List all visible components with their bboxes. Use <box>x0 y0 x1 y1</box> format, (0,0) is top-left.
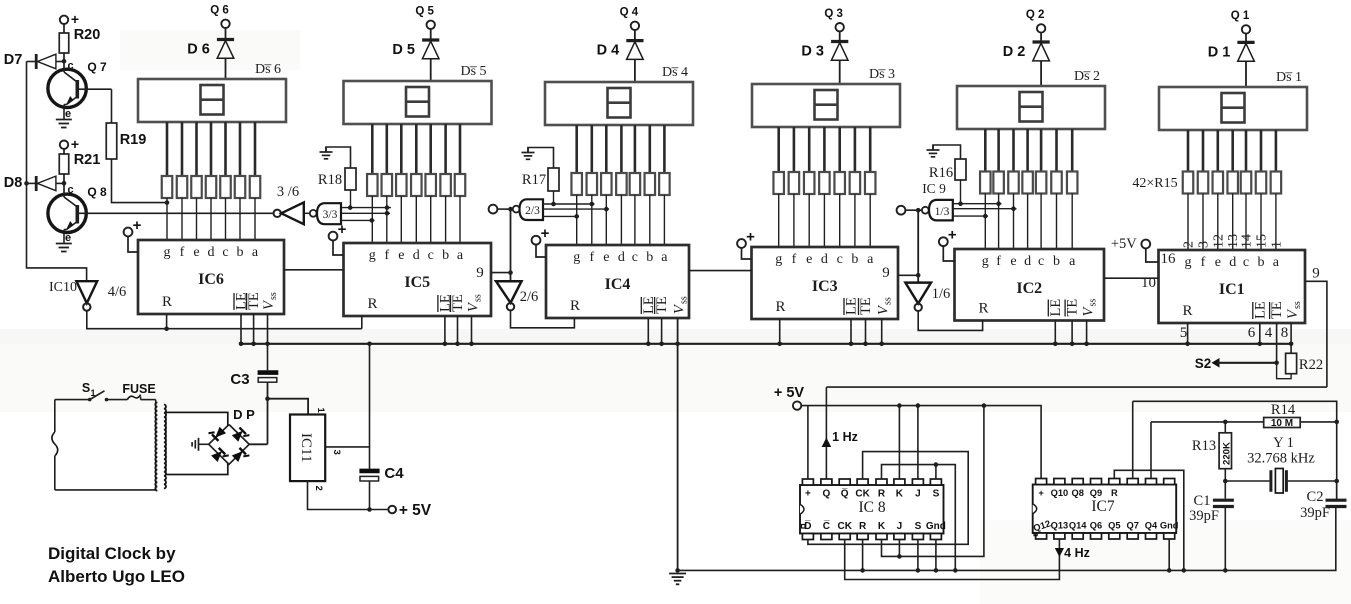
svg-text:+5V: +5V <box>1111 236 1137 252</box>
wire C3 node to IC11 pin1 <box>268 399 309 415</box>
svg-text:+: + <box>805 489 811 500</box>
svg-text:10 M: 10 M <box>1271 418 1293 429</box>
svg-text:Q 2: Q 2 <box>1026 9 1045 21</box>
svg-text:D 2: D 2 <box>1003 44 1026 60</box>
segment wires Ds4 to resistors <box>577 125 665 173</box>
svg-text:CK: CK <box>837 521 852 532</box>
svg-text:Ds̅ 3: Ds̅ 3 <box>869 67 895 82</box>
svg-text:g: g <box>369 248 376 263</box>
diode D7 <box>4 52 67 69</box>
svg-text:D 6: D 6 <box>187 42 210 58</box>
diode D8 <box>4 175 67 191</box>
wire 1/6 output to IC2 reset <box>918 311 982 330</box>
svg-text:b: b <box>1053 254 1060 269</box>
wire IC8 R bottom to ground bus <box>860 539 865 573</box>
svg-text:K: K <box>896 489 904 500</box>
wire R19 to segment g column <box>112 159 170 205</box>
IC3 <box>752 247 899 319</box>
wire 2/6 output to IC4 reset <box>511 310 575 327</box>
ground bus bottom <box>678 510 1336 571</box>
svg-text:+ 5V: + 5V <box>399 502 432 519</box>
svg-text:R: R <box>162 294 172 310</box>
wire IC8 R and S top to ground bus <box>882 462 958 572</box>
svg-text:d: d <box>1229 255 1236 270</box>
plus supply terminal for IC2 <box>939 227 957 261</box>
svg-text:42×R15: 42×R15 <box>1132 176 1177 191</box>
svg-text:3 /6: 3 /6 <box>277 184 299 200</box>
svg-text:R: R <box>570 298 580 314</box>
wire LE TE Vss bus <box>239 314 1294 346</box>
svg-text:Q: Q <box>823 489 831 500</box>
svg-text:IC6: IC6 <box>198 271 224 288</box>
terminal Q1 <box>1231 10 1250 33</box>
wire IC8 CK bottom 4Hz line to IC7 Q13 <box>845 539 1090 580</box>
svg-text:S: S <box>915 521 922 532</box>
svg-text:b: b <box>442 248 449 263</box>
svg-text:R16: R16 <box>929 165 953 181</box>
svg-text:IC10: IC10 <box>49 280 77 295</box>
svg-text:R14: R14 <box>1271 402 1296 418</box>
svg-text:5: 5 <box>1180 325 1188 341</box>
mains loop with AC source mark <box>52 400 156 490</box>
svg-text:Digital Clock by: Digital Clock by <box>48 544 176 563</box>
svg-text:C4: C4 <box>384 465 404 482</box>
segment resistor array under Ds1 (42xR15) <box>1183 172 1281 194</box>
svg-text:R: R <box>878 489 886 500</box>
segment wires Ds2 to resistors <box>985 129 1072 172</box>
segment resistor array under Ds4 <box>571 173 669 195</box>
svg-text:C3: C3 <box>230 371 249 388</box>
svg-text:Gnd: Gnd <box>926 521 946 532</box>
wire IC3 pin9 to 1/6 node <box>882 265 920 281</box>
resistor R22 <box>1277 344 1323 379</box>
plus supply terminal for IC6 <box>124 217 142 252</box>
svg-text:TE: TE <box>450 294 466 312</box>
svg-text:Ds̅ 4: Ds̅ 4 <box>662 65 688 80</box>
crystal Y1 <box>1225 435 1339 493</box>
IC6 <box>138 240 284 314</box>
wires resistors to IC4 inputs <box>577 195 665 245</box>
svg-text:TE: TE <box>858 297 874 315</box>
svg-text:S: S <box>933 489 940 500</box>
svg-text:R18: R18 <box>318 172 342 188</box>
gate 3/3 input taps <box>341 205 391 222</box>
svg-text:Q 5: Q 5 <box>415 6 434 18</box>
svg-text:g: g <box>573 250 580 265</box>
svg-text:1 Hz: 1 Hz <box>832 430 858 444</box>
svg-text:R: R <box>367 296 377 312</box>
svg-text:f: f <box>1201 255 1206 270</box>
svg-text:TE: TE <box>654 296 670 314</box>
svg-text:b: b <box>646 250 653 265</box>
svg-text:b: b <box>1258 255 1265 270</box>
diode D6 <box>187 28 234 79</box>
resistor R19 <box>106 89 146 159</box>
svg-text:Q4: Q4 <box>1145 521 1158 531</box>
ground symbol main <box>669 344 686 585</box>
svg-text:1/3: 1/3 <box>935 206 950 218</box>
transistor Q8 <box>48 183 107 244</box>
svg-text:Q7: Q7 <box>1126 521 1138 531</box>
svg-text:1/6: 1/6 <box>932 286 951 302</box>
svg-text:c: c <box>837 252 843 267</box>
svg-text:K: K <box>878 521 886 532</box>
svg-text:D 5: D 5 <box>392 42 415 58</box>
svg-text:d: d <box>413 248 420 263</box>
display Ds 2 <box>957 69 1105 129</box>
svg-text:6: 6 <box>1248 325 1256 341</box>
svg-text:d: d <box>208 245 215 260</box>
svg-text:Gnd: Gnd <box>1160 521 1179 531</box>
svg-text:Ds̅ 5: Ds̅ 5 <box>460 64 486 79</box>
diode D1 <box>1208 34 1255 87</box>
resistor R16 with ground <box>927 145 967 204</box>
wire D7 D8 anodes to IC10 input <box>27 62 87 282</box>
svg-text:c: c <box>222 245 228 260</box>
terminal + for R21 <box>60 136 79 152</box>
svg-text:D 3: D 3 <box>801 44 824 60</box>
svg-text:e: e <box>398 248 404 263</box>
wire IC8 plus pin to rail <box>807 406 809 479</box>
wire IC8 Q output 1 Hz <box>822 387 858 479</box>
svg-text:2/6: 2/6 <box>520 289 539 305</box>
svg-text:IC 8: IC 8 <box>858 499 885 516</box>
svg-text:ss: ss <box>268 292 279 300</box>
svg-text:15: 15 <box>1255 234 1270 248</box>
svg-text:g: g <box>1185 255 1192 270</box>
svg-text:a: a <box>457 248 464 263</box>
svg-text:R19: R19 <box>120 132 147 148</box>
svg-text:R: R <box>1111 488 1118 498</box>
gate 1/3 <box>922 200 953 221</box>
svg-text:S: S <box>82 381 90 395</box>
svg-text:a: a <box>1273 255 1280 270</box>
gate 2/3 <box>513 199 543 220</box>
svg-text:J: J <box>915 489 921 500</box>
wires resistors to IC6 inputs <box>167 198 255 240</box>
svg-text:d: d <box>821 252 828 267</box>
segment wires Ds1 to resistors <box>1188 130 1276 172</box>
svg-text:3/3: 3/3 <box>323 209 338 221</box>
terminal +5V for counters <box>774 385 805 410</box>
ground for Q7 emitter <box>56 105 72 128</box>
svg-text:c: c <box>1038 254 1044 269</box>
IC1 input pin numbers <box>1182 234 1285 248</box>
wire IC7 Gnd pin to ground bus <box>1167 539 1172 573</box>
terminal Q2 <box>1026 9 1045 32</box>
svg-text:IC1: IC1 <box>1219 281 1245 298</box>
svg-text:Q9: Q9 <box>1090 488 1102 498</box>
segment resistor array under Ds2 <box>980 172 1077 194</box>
svg-text:+: + <box>1038 488 1044 498</box>
resistor R17 with ground <box>522 148 560 205</box>
svg-text:e: e <box>603 250 609 265</box>
svg-text:32.768 kHz: 32.768 kHz <box>1247 451 1315 467</box>
IC8 <box>800 479 946 540</box>
svg-text:+: + <box>746 229 755 246</box>
wire IC8 CK top to D bottom <box>808 452 968 545</box>
svg-text:c: c <box>1243 255 1249 270</box>
svg-text:Q 7: Q 7 <box>87 60 107 74</box>
resistor R14 <box>1264 402 1301 429</box>
svg-text:S2: S2 <box>1195 356 1212 371</box>
svg-text:TE: TE <box>246 292 262 310</box>
IC2 <box>955 249 1105 321</box>
IC7 <box>1032 479 1179 540</box>
svg-text:d: d <box>618 250 625 265</box>
wire IC5 pin9 to 2/6 node <box>476 265 513 281</box>
terminal Q4 <box>620 7 639 30</box>
wire IC1 TE pin to S2 node <box>1276 323 1278 363</box>
IC6 LE TE Vss labels <box>234 292 280 310</box>
IC5 <box>344 243 492 316</box>
svg-text:4 Hz: 4 Hz <box>1064 546 1090 560</box>
svg-text:10: 10 <box>1141 275 1156 291</box>
svg-text:b: b <box>851 252 858 267</box>
resistor R18 with ground <box>318 147 356 208</box>
wire IC8 S Gnd bottom to ground bus <box>916 539 939 573</box>
wire IC10 output to reset bus of IC6 IC5 <box>87 311 362 331</box>
svg-text:e: e <box>65 232 71 244</box>
capacitor C2 <box>1300 481 1346 521</box>
svg-text:IC7: IC7 <box>1091 498 1115 515</box>
gate 2/3 input taps <box>543 202 609 219</box>
svg-text:+: + <box>133 217 142 234</box>
svg-text:f: f <box>589 250 594 265</box>
regulator IC11 <box>290 408 370 510</box>
segment wires Ds3 to resistors <box>779 127 871 172</box>
svg-text:C̅: C̅ <box>823 520 830 532</box>
display Ds 6 <box>138 62 286 122</box>
svg-text:a: a <box>867 252 874 267</box>
bridge rectifier DP <box>208 407 255 464</box>
svg-text:D7: D7 <box>4 52 23 68</box>
resistor R13 <box>1192 422 1233 483</box>
svg-text:16: 16 <box>1161 251 1177 267</box>
IC4 LE TE Vss labels <box>641 296 690 314</box>
svg-text:d: d <box>1024 254 1031 269</box>
svg-text:f: f <box>384 248 389 263</box>
svg-text:+: + <box>71 11 79 27</box>
wire IC8 K J bottom to rail <box>882 406 984 559</box>
svg-text:Q5: Q5 <box>1108 521 1120 531</box>
svg-text:9: 9 <box>476 265 484 281</box>
svg-text:C1: C1 <box>1194 493 1211 509</box>
svg-text:R13: R13 <box>1192 438 1216 454</box>
IC3 LE TE Vss labels <box>844 297 894 315</box>
svg-text:2: 2 <box>313 486 324 491</box>
segment wires Ds6 to resistors <box>167 122 255 176</box>
svg-text:LE: LE <box>1048 299 1064 317</box>
svg-text:IC2: IC2 <box>1016 280 1042 297</box>
svg-text:e: e <box>65 108 71 120</box>
wire +5V rail to IC7 plus <box>801 403 1041 479</box>
svg-text:R22: R22 <box>1299 357 1323 373</box>
svg-text:ss: ss <box>1088 299 1099 307</box>
svg-text:Q14: Q14 <box>1069 521 1087 531</box>
wire IC8 K J top to rail <box>899 406 918 479</box>
svg-text:4: 4 <box>1265 325 1273 341</box>
fuse <box>122 382 155 400</box>
IC4 <box>546 245 689 318</box>
svg-text:2: 2 <box>1182 241 1197 248</box>
wire IC2 pin9 to IC1 pin10 <box>1104 275 1159 291</box>
svg-text:+ 5V: + 5V <box>774 385 805 401</box>
svg-text:+: + <box>948 227 957 244</box>
terminal for gate 2/3 <box>489 205 513 214</box>
resistor R20 <box>59 24 100 61</box>
svg-text:a: a <box>661 250 668 265</box>
svg-text:Ds̅ 1: Ds̅ 1 <box>1276 70 1302 85</box>
svg-text:TE: TE <box>1065 299 1081 317</box>
svg-text:9: 9 <box>882 265 890 281</box>
svg-text:R: R <box>978 301 988 317</box>
svg-text:IC4: IC4 <box>605 276 631 293</box>
svg-text:Q6: Q6 <box>1090 521 1102 531</box>
resistor R21 <box>59 149 100 183</box>
svg-text:f: f <box>792 252 797 267</box>
svg-text:220K: 220K <box>1222 442 1233 465</box>
capacitor C1 <box>1189 481 1234 573</box>
wire Q8 base to inverter 3/6 <box>79 212 273 214</box>
svg-text:e: e <box>1010 254 1016 269</box>
diode D5 <box>392 29 439 81</box>
wire IC6 pin9 to IC5 pin10 <box>284 269 344 271</box>
svg-text:e: e <box>1215 255 1221 270</box>
IC5 LE TE Vss labels <box>437 294 483 312</box>
svg-text:Q13: Q13 <box>1051 521 1069 531</box>
svg-text:4/6: 4/6 <box>108 284 127 300</box>
inverter IC10 4/6 <box>49 280 126 311</box>
svg-text:e: e <box>806 252 812 267</box>
plus supply terminal for IC1 <box>1111 236 1159 262</box>
svg-text:9: 9 <box>1312 266 1320 282</box>
svg-text:D 1: D 1 <box>1208 44 1231 60</box>
wire IC1 pin9 to 1Hz line <box>1305 281 1327 387</box>
svg-text:+: + <box>71 136 79 152</box>
terminal Q6 <box>210 5 229 28</box>
svg-text:Q 6: Q 6 <box>210 5 229 17</box>
wire bus to C4 <box>367 342 372 469</box>
capacitor C3 <box>230 344 278 401</box>
svg-text:g: g <box>982 254 989 269</box>
ground at bridge negative <box>192 438 209 451</box>
svg-text:R: R <box>1182 303 1192 319</box>
wires resistors to IC2 inputs <box>985 194 1072 250</box>
svg-text:D8: D8 <box>4 175 23 191</box>
svg-text:IC 9: IC 9 <box>922 181 946 196</box>
svg-text:Q 8: Q 8 <box>87 185 107 199</box>
svg-text:c: c <box>632 250 638 265</box>
terminal +5V output <box>370 502 432 519</box>
wire IC7 pin6 oscillator out <box>1133 401 1337 498</box>
inverter 2/6 <box>496 207 538 311</box>
wires resistors to IC5 inputs <box>372 196 460 243</box>
svg-text:a: a <box>1069 254 1076 269</box>
svg-text:ss: ss <box>473 294 484 302</box>
ground for Q8 emitter <box>56 230 72 252</box>
svg-text:+: + <box>541 225 550 242</box>
svg-text:Q 1: Q 1 <box>1231 10 1250 22</box>
wire IC4 pin9 to IC3 pin10 <box>689 270 752 272</box>
plus supply terminal for IC3 <box>737 229 755 260</box>
wire 1Hz line to IC1 pin9 <box>826 386 1327 388</box>
IC1 pin labels 16 5 6 4 8 9 <box>1161 251 1320 341</box>
segment resistor array under Ds5 <box>367 174 465 196</box>
svg-text:39pF: 39pF <box>1300 505 1330 521</box>
gate 1/3 input taps <box>953 201 1017 218</box>
svg-text:Q8: Q8 <box>1071 488 1083 498</box>
svg-text:e: e <box>193 245 199 260</box>
display Ds 1 <box>1159 70 1307 130</box>
segment wires Ds5 to resistors <box>372 124 460 174</box>
wires resistors to IC1 inputs <box>1188 194 1276 251</box>
terminal Q5 <box>415 6 434 29</box>
capacitor C4 <box>359 465 404 512</box>
wires resistors to IC3 inputs <box>779 194 871 247</box>
svg-text:Ds̅ 6: Ds̅ 6 <box>255 62 281 77</box>
svg-text:3: 3 <box>331 450 342 455</box>
svg-text:R: R <box>859 521 867 532</box>
diode D2 <box>1003 33 1050 86</box>
svg-text:J: J <box>897 521 903 532</box>
svg-text:Q 4: Q 4 <box>620 7 639 19</box>
svg-text:Ds̅ 2: Ds̅ 2 <box>1074 69 1100 84</box>
svg-text:IC11: IC11 <box>298 433 314 462</box>
svg-text:IC5: IC5 <box>404 274 430 291</box>
display Ds 4 <box>545 65 693 125</box>
svg-text:ss: ss <box>679 296 690 304</box>
svg-text:R17: R17 <box>522 172 546 188</box>
svg-text:g: g <box>164 245 171 260</box>
plus supply terminal for IC4 <box>532 225 550 257</box>
svg-text:12: 12 <box>1211 234 1226 248</box>
svg-text:39pF: 39pF <box>1189 508 1219 524</box>
svg-text:Alberto Ugo LEO: Alberto Ugo LEO <box>48 567 185 586</box>
diode D4 <box>597 30 644 82</box>
transformer T1 <box>155 400 228 491</box>
svg-text:ss: ss <box>883 297 894 305</box>
svg-text:3: 3 <box>1197 241 1212 248</box>
svg-text:CK: CK <box>855 489 870 500</box>
svg-text:ss: ss <box>1292 301 1303 309</box>
gate 3/3 <box>310 203 341 224</box>
svg-text:14: 14 <box>1240 234 1255 248</box>
svg-text:g: g <box>775 252 782 267</box>
svg-text:c: c <box>428 248 434 263</box>
svg-text:Q 3: Q 3 <box>824 8 843 20</box>
svg-text:D P: D P <box>233 407 255 422</box>
inverter 1/6 <box>905 208 950 311</box>
switch S1 <box>55 381 128 401</box>
wire bridge output to C3 node <box>249 399 267 445</box>
title text <box>48 544 185 586</box>
display Ds 5 <box>344 64 492 124</box>
svg-text:2/3: 2/3 <box>525 205 540 217</box>
svg-text:FUSE: FUSE <box>122 382 155 396</box>
svg-text:b: b <box>237 245 244 260</box>
svg-text:Q10: Q10 <box>1051 488 1069 498</box>
segment resistor array under Ds3 <box>773 172 875 194</box>
svg-text:f: f <box>180 245 185 260</box>
display Ds 3 <box>752 67 900 127</box>
svg-text:Q̅: Q̅ <box>841 488 849 500</box>
svg-text:C2: C2 <box>1307 489 1324 505</box>
inverter 3/6 <box>274 184 310 224</box>
svg-text:8: 8 <box>1281 325 1289 341</box>
oscillator feedback line <box>1151 420 1339 425</box>
svg-text:R20: R20 <box>74 27 101 43</box>
